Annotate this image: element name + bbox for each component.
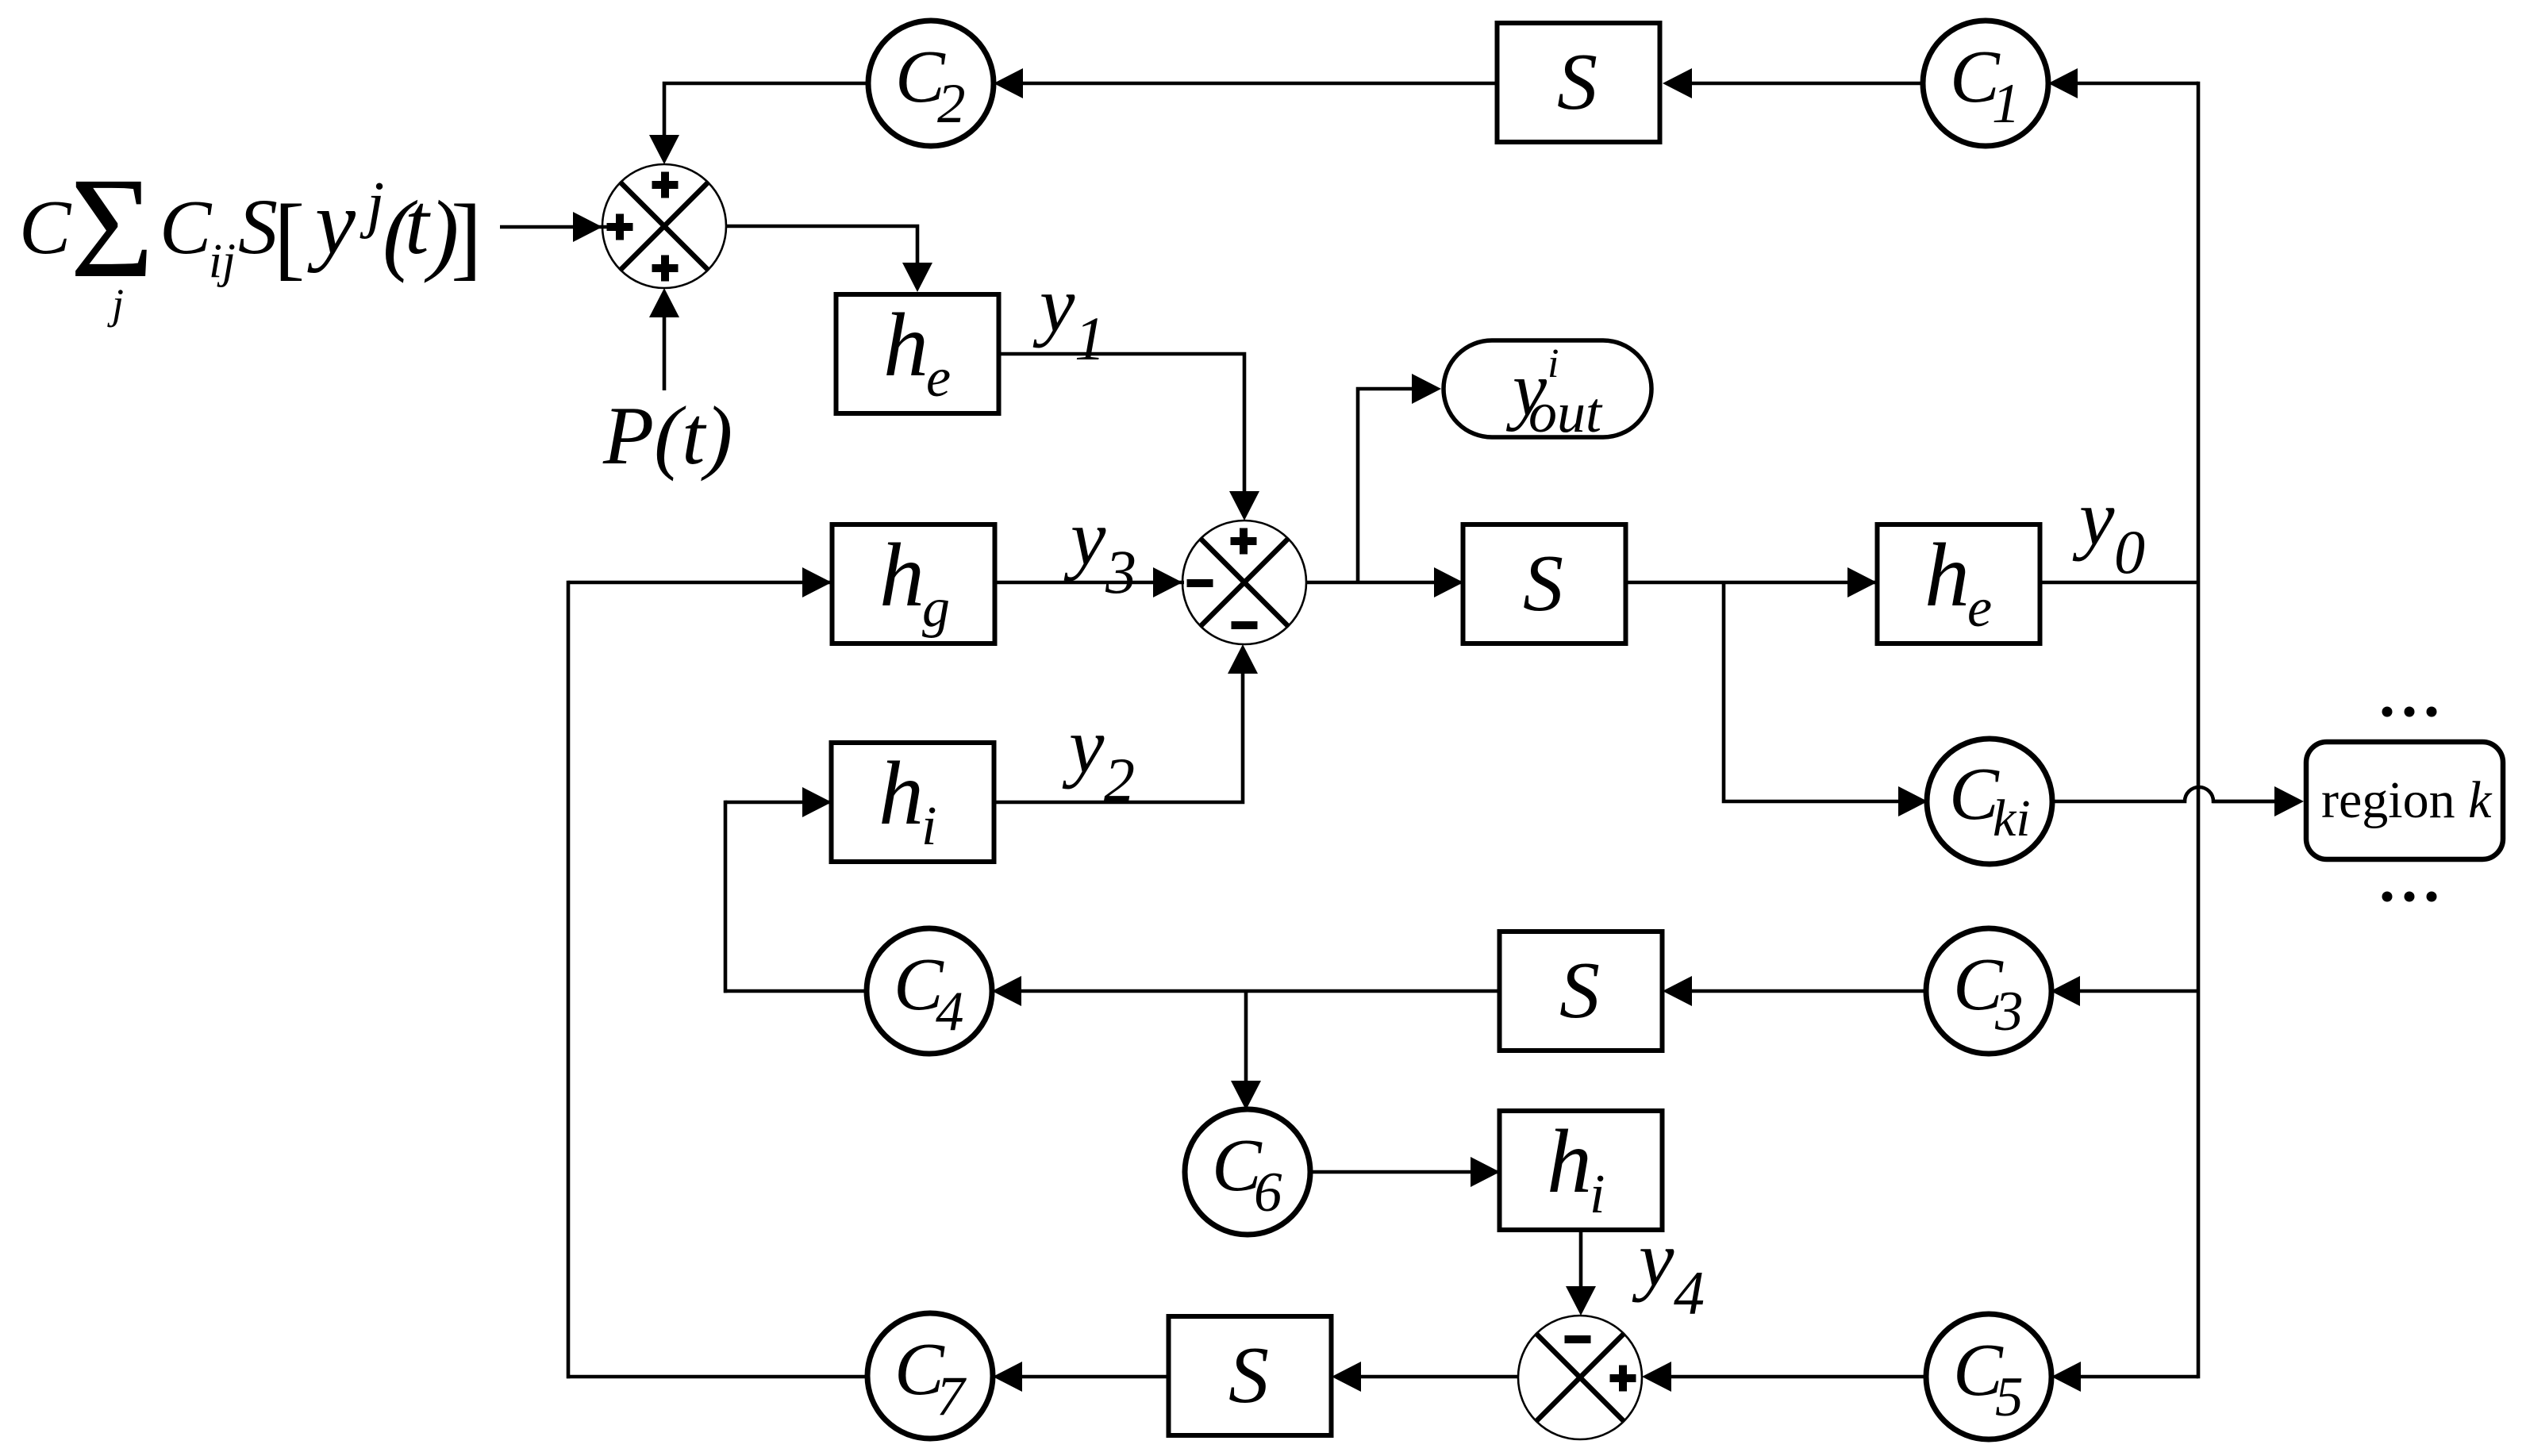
wire summing junction 1 to h_e bbox=[726, 226, 932, 292]
summing junction 3 (slow inhibitory adder) bbox=[1518, 1316, 1642, 1439]
svg-text:h: h bbox=[883, 294, 929, 395]
svg-text:y: y bbox=[1632, 1215, 1674, 1303]
summing junction 1 (extrinsic input adder) bbox=[602, 164, 726, 288]
svg-text:g: g bbox=[922, 578, 950, 639]
wire y2: h_i to summing junction 2 bbox=[994, 644, 1258, 802]
wire P(t) to summing junction 1 bbox=[649, 288, 679, 390]
svg-text:0: 0 bbox=[2114, 517, 2145, 586]
branch S mid output down to C_ki bbox=[1724, 582, 1928, 816]
gain C4 bbox=[867, 928, 992, 1054]
svg-text:1: 1 bbox=[1992, 73, 2020, 135]
wire C5 to summing junction 3 bbox=[1642, 1362, 1926, 1392]
wire S row5 to C4 (junction to C6) bbox=[992, 976, 1500, 1006]
label y3 bbox=[1063, 494, 1136, 606]
gain C3 bbox=[1926, 928, 2051, 1054]
branch down to C6 bbox=[1231, 991, 1261, 1110]
block region k bbox=[2306, 742, 2503, 859]
svg-text:]: ] bbox=[451, 185, 482, 289]
svg-text:S: S bbox=[1228, 1331, 1269, 1420]
svg-text:P(t): P(t) bbox=[602, 389, 732, 482]
svg-text:e: e bbox=[926, 348, 951, 409]
svg-text:2: 2 bbox=[937, 73, 966, 135]
wire C7 to left bus bbox=[567, 1375, 867, 1379]
svg-text:i: i bbox=[1590, 1164, 1605, 1225]
gain C6 bbox=[1185, 1109, 1310, 1235]
wire summing junction 3 to S bottom bbox=[1332, 1362, 1518, 1392]
svg-text:y: y bbox=[1032, 260, 1075, 348]
block h_e (excitatory synaptic kernel) bbox=[836, 294, 999, 413]
svg-text:h: h bbox=[879, 743, 924, 843]
block S (top) bbox=[1498, 23, 1660, 142]
block h_g bbox=[832, 524, 995, 643]
svg-text:out: out bbox=[1528, 381, 1603, 444]
branch junction to output node y_out bbox=[1358, 374, 1441, 582]
svg-text:3: 3 bbox=[1994, 981, 2024, 1043]
wire C_ki to region k (hops over right bus) bbox=[2052, 786, 2304, 816]
svg-text:h: h bbox=[879, 524, 925, 625]
svg-text:y: y bbox=[1062, 701, 1105, 789]
block h_e (right) bbox=[1878, 524, 2040, 643]
block S (bottom) bbox=[1169, 1316, 1332, 1435]
wire C4 to bus2 bbox=[724, 989, 867, 993]
left feedback bus (vertical) bbox=[567, 581, 571, 1379]
wire formula to summing junction 1 bbox=[500, 212, 630, 242]
svg-text:ki: ki bbox=[1993, 789, 2031, 847]
svg-text:h: h bbox=[1924, 524, 1970, 625]
wire C6 to h_i2 bbox=[1310, 1157, 1501, 1187]
bus2 vertical (C4 feedback riser) bbox=[724, 801, 728, 993]
block h_i (inhibitory synaptic kernel) bbox=[832, 743, 994, 862]
wire S mid to h_e right bbox=[1626, 567, 1878, 597]
wire right bus to C1 bbox=[2048, 68, 2198, 98]
svg-text:S: S bbox=[1557, 37, 1597, 127]
block S (row 5) bbox=[1500, 932, 1663, 1051]
label C sum_j C_ij S[y^j(t)] bbox=[19, 148, 482, 328]
wire right bus to C3 bbox=[2051, 976, 2198, 1006]
wire S top to C2 bbox=[994, 68, 1497, 98]
label y2 bbox=[1062, 701, 1135, 814]
wire right bus to C5 bbox=[2051, 1362, 2198, 1392]
block h_i (lower) bbox=[1500, 1111, 1663, 1230]
svg-text:4: 4 bbox=[936, 981, 964, 1043]
svg-text:j: j bbox=[359, 170, 384, 240]
svg-text:i: i bbox=[1548, 341, 1559, 386]
wire C3 to S row5 bbox=[1663, 976, 1927, 1006]
wire h_i2 to summing junction 3 bbox=[1566, 1230, 1596, 1316]
dots above region k bbox=[2382, 707, 2437, 717]
output node y_out^i bbox=[1444, 340, 1651, 444]
wire C2 to summing junction 1 bbox=[649, 83, 868, 164]
gain C_ki bbox=[1927, 739, 2052, 864]
wire y1: h_e to summing junction 2 bbox=[998, 354, 1259, 521]
svg-text:4: 4 bbox=[1674, 1258, 1705, 1327]
block S (mid) bbox=[1463, 524, 1626, 643]
svg-text:S: S bbox=[238, 182, 278, 271]
svg-text:[: [ bbox=[274, 185, 305, 289]
gain C7 bbox=[867, 1313, 993, 1439]
label y4 bbox=[1632, 1215, 1705, 1327]
svg-text:3: 3 bbox=[1105, 537, 1136, 606]
wire left bus to h_g bbox=[568, 567, 832, 597]
dots below region k bbox=[2382, 892, 2437, 902]
svg-text:y: y bbox=[2072, 474, 2115, 562]
wire C1 to S top bbox=[1663, 68, 1923, 98]
label P(t) bbox=[602, 389, 732, 482]
svg-text:e: e bbox=[1967, 578, 1992, 639]
label y1 bbox=[1032, 260, 1105, 373]
wire y0: h_e right to right bus bbox=[2040, 581, 2198, 585]
svg-text:y: y bbox=[307, 172, 356, 273]
svg-text:h: h bbox=[1547, 1111, 1592, 1212]
svg-text:S: S bbox=[1559, 946, 1600, 1035]
svg-text:C: C bbox=[160, 185, 213, 271]
svg-text:ij: ij bbox=[209, 235, 236, 288]
svg-text:i: i bbox=[921, 796, 936, 857]
svg-text:C: C bbox=[19, 185, 72, 271]
svg-text:1: 1 bbox=[1075, 304, 1105, 373]
svg-text:5: 5 bbox=[1995, 1366, 2024, 1428]
wire y3: h_g to summing junction 2 bbox=[995, 567, 1184, 597]
wire summing junction 2 to S mid bbox=[1306, 567, 1464, 597]
svg-text:6: 6 bbox=[1254, 1162, 1282, 1224]
right bus (vertical) bbox=[2197, 82, 2201, 1379]
svg-text:region k: region k bbox=[2321, 771, 2493, 829]
wire bus2 to h_i bbox=[725, 787, 832, 817]
svg-text:t: t bbox=[405, 175, 431, 272]
svg-text:S: S bbox=[1523, 539, 1563, 628]
gain C1 bbox=[1923, 21, 2048, 146]
gain C5 bbox=[1926, 1314, 2051, 1439]
svg-text:7: 7 bbox=[936, 1366, 967, 1427]
wire S bottom to C7 bbox=[993, 1362, 1168, 1392]
summing junction 2 (pyramidal potential adder) bbox=[1182, 521, 1306, 644]
label y0 bbox=[2072, 474, 2145, 586]
gain C2 bbox=[868, 21, 994, 146]
svg-text:y: y bbox=[1063, 494, 1106, 582]
